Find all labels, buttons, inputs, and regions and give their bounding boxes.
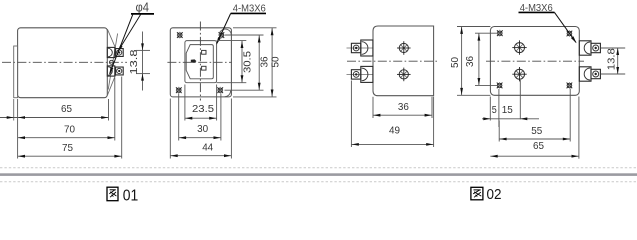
- svg-text:13.8: 13.8: [129, 49, 140, 75]
- svg-text:36: 36: [260, 56, 271, 67]
- svg-text:36: 36: [398, 101, 409, 113]
- svg-text:65: 65: [61, 103, 72, 115]
- svg-text:49: 49: [389, 125, 400, 137]
- svg-text:75: 75: [62, 142, 73, 154]
- svg-text:φ4: φ4: [136, 1, 150, 15]
- svg-text:50: 50: [271, 56, 282, 67]
- svg-text:30: 30: [197, 123, 208, 135]
- svg-text:13.8: 13.8: [607, 48, 618, 70]
- svg-text:5: 5: [492, 105, 497, 116]
- svg-text:44: 44: [202, 142, 213, 154]
- svg-text:70: 70: [64, 123, 75, 135]
- svg-text:30.5: 30.5: [242, 51, 253, 73]
- svg-text:65: 65: [533, 140, 544, 152]
- svg-text:15: 15: [502, 105, 513, 116]
- svg-text:02: 02: [487, 187, 502, 203]
- svg-text:55: 55: [531, 125, 542, 137]
- svg-text:01: 01: [123, 188, 139, 205]
- svg-text:36: 36: [465, 56, 476, 67]
- svg-text:23.5: 23.5: [192, 104, 214, 115]
- svg-text:50: 50: [450, 57, 461, 68]
